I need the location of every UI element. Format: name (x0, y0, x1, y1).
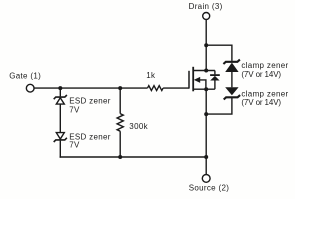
wire bottom rail (60, 156, 207, 158)
clamp zener D1 (7V or 14V) (223, 60, 240, 72)
wire between clamp zeners (231, 72, 233, 87)
wire MOSFET source to source terminal (205, 89, 207, 174)
terminal Gate (1) (26, 84, 34, 92)
svg-text:(7V or 14V): (7V or 14V) (241, 98, 281, 107)
wire clamp zeners to source line (206, 98, 232, 114)
svg-text:(7V or 14V): (7V or 14V) (241, 70, 281, 79)
svg-text:Gate (1): Gate (1) (9, 71, 41, 80)
node bottom rail/source junction (204, 155, 208, 159)
svg-text:7V: 7V (69, 106, 80, 115)
clamp zener D2 (7V or 14V) (224, 87, 240, 99)
middle stub wire (200, 80, 206, 89)
node drain stub junction (204, 69, 208, 73)
ESD zener D4 7V (54, 133, 67, 142)
node drain/clamp junction (204, 43, 208, 47)
source stub (193, 88, 215, 90)
svg-text:1k: 1k (146, 71, 156, 80)
wire ESD branch down from gate wire (59, 88, 61, 96)
node gate/ESD junction (58, 86, 62, 90)
wire 300k to bottom wire (119, 131, 121, 157)
wire 1k resistor to MOSFET gate (163, 87, 189, 89)
node clamp/source junction (204, 112, 208, 116)
ESD zener D3 7V (54, 95, 67, 104)
channel bar (192, 67, 194, 92)
transistor Q1 N-channel MOSFET (189, 67, 220, 92)
resistor 1k (148, 86, 164, 91)
node gate/300k junction (118, 86, 122, 90)
svg-text:300k: 300k (129, 122, 148, 131)
resistor 300k (117, 114, 123, 132)
wire gate terminal to 1k resistor (34, 87, 147, 89)
source arrow (194, 77, 200, 83)
body diode lead top (214, 71, 216, 75)
node source stub junction (204, 87, 208, 91)
body diode bar (210, 74, 220, 76)
svg-text:Drain (3): Drain (3) (189, 2, 223, 11)
body diode triangle (210, 76, 219, 81)
node 300k/bottom wire junction (118, 155, 122, 159)
drain stub (193, 70, 215, 72)
svg-text:Source (2): Source (2) (189, 184, 230, 193)
wire 300k branch down (119, 88, 121, 114)
wire between ESD zeners (59, 104, 61, 133)
svg-text:ESD zener: ESD zener (69, 97, 111, 106)
wire drain to clamp zeners (206, 45, 232, 61)
body diode lead bottom (214, 80, 216, 89)
wire ESD chain to bottom wire (59, 141, 61, 158)
svg-text:clamp zener: clamp zener (241, 61, 288, 70)
svg-text:7V: 7V (69, 141, 80, 150)
terminal Drain (3) (203, 13, 210, 20)
gate plate (188, 71, 190, 89)
wire drain terminal to MOSFET drain (205, 20, 207, 71)
terminal Source (2) (202, 175, 210, 183)
